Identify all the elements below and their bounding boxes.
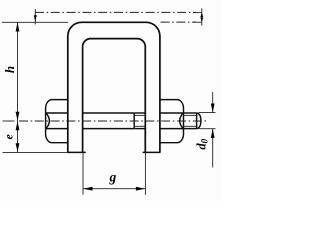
dimension d0 extension lines — [199, 112, 216, 114]
d0 arrow down — [211, 104, 215, 113]
stud chamfer line — [196, 113, 198, 129]
svg-text:h: h — [2, 66, 17, 73]
right leg bottom edge — [143, 151, 161, 153]
hex head middle facet arc — [46, 113, 49, 129]
top edge extension line left (thin solid) — [2, 21, 68, 23]
thread run-out line — [133, 113, 135, 129]
left leg bottom edge (extended left for e dimension) — [3, 151, 68, 153]
dimension e line — [17, 121, 19, 152]
g arrow left — [83, 187, 92, 191]
g arrow right — [136, 187, 145, 191]
e arrow bottom — [16, 143, 20, 152]
dimension h line — [17, 22, 19, 121]
small gap arrow left (down) — [34, 15, 37, 22]
bolt centerline — [19, 120, 207, 122]
d0 arrow up — [211, 129, 215, 138]
dimension g extension lines — [82, 153, 84, 195]
centerline extension left for h/e — [3, 120, 15, 122]
stud rounded end — [197, 113, 201, 129]
pipe axis centerline (top dash-dot) — [35, 11, 196, 13]
h arrow bottom — [16, 112, 20, 121]
h arrow top — [16, 22, 20, 31]
svg-text:e: e — [1, 133, 15, 139]
bolt shaft between legs — [83, 112, 135, 114]
dimension g line — [83, 188, 145, 190]
hex head facet lines — [46, 112, 68, 114]
hex nut (right) outline — [160, 100, 184, 143]
thread core lines — [134, 114, 145, 116]
dimension d0 line upper — [212, 92, 214, 113]
stud thread core lines — [184, 114, 198, 116]
U-bolt outer contour — [68, 22, 160, 152]
dimension d0 line lower — [212, 129, 214, 168]
small gap arrow down — [200, 18, 203, 22]
threaded stud end (right of nut) — [184, 112, 197, 114]
nut facet lines — [160, 112, 184, 114]
top edge extension right (dash-dot) — [161, 21, 197, 23]
nut middle facet arc — [180, 113, 183, 129]
svg-text:g: g — [109, 169, 117, 184]
small gap arrow up — [200, 13, 203, 17]
small gap dimension tick left — [34, 9, 36, 25]
e arrow top — [16, 121, 20, 130]
small gap dimension bar right — [201, 8, 203, 25]
threaded section outer lines — [134, 112, 145, 114]
hex bolt head (left) outline — [46, 100, 68, 143]
U-bolt inner contour — [83, 39, 146, 153]
